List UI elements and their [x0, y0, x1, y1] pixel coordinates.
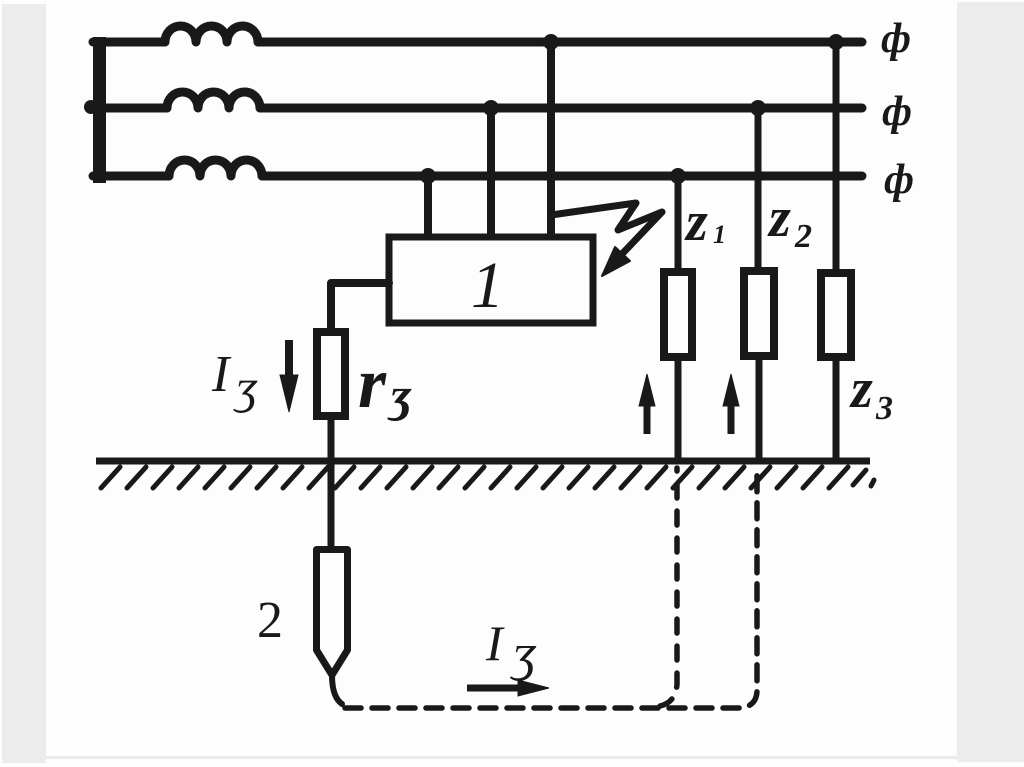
wire: from box 1 left side to r3	[331, 283, 389, 328]
earth electrode 2	[317, 550, 348, 676]
inductor: source winding phase A	[165, 26, 258, 42]
wire: electrode tip stub	[332, 675, 342, 704]
node: junction dot on phase C at x=428	[420, 168, 436, 184]
wire: phase A line right segment	[258, 38, 862, 47]
wire: phase B line right segment	[260, 104, 862, 113]
resistor r3	[317, 332, 345, 416]
faint slide bottom edge	[46, 756, 957, 759]
label: I3 current	[211, 346, 258, 414]
arrow: I3 downward arrow	[280, 340, 298, 412]
wire: phase C line left segment	[93, 172, 169, 181]
svg-text:ф: ф	[882, 89, 912, 135]
node: junction dot on phase B at x=491	[483, 100, 499, 116]
ground surface line	[96, 458, 870, 465]
resistor z2	[744, 271, 774, 356]
arrow: I3 rightward arrow	[467, 680, 549, 696]
node: junction dot on phase C for z1	[670, 168, 686, 184]
node: junction dot on phase A for z3	[828, 34, 844, 50]
wire: r3 to earth electrode	[328, 420, 335, 545]
svg-text:z: z	[849, 358, 873, 420]
label: r3	[358, 343, 413, 423]
label: z3	[849, 358, 893, 427]
resistor z1	[664, 272, 692, 357]
inductor: source winding phase C	[169, 160, 262, 176]
inductor: source winding phase B	[167, 92, 260, 108]
wire: phase C line right segment	[262, 172, 862, 181]
svg-text:z: z	[767, 187, 791, 249]
svg-text:r: r	[358, 343, 387, 423]
node: junction dot on phase B for z2	[750, 100, 766, 116]
arrow: up arrow left of z1	[639, 374, 655, 434]
label: z2	[767, 187, 812, 255]
wire: phase B line left segment	[91, 104, 167, 113]
wire: tap from phase A down to box 1	[547, 42, 555, 236]
svg-text:ф: ф	[881, 16, 911, 62]
svg-text:2: 2	[257, 592, 283, 649]
svg-text:I: I	[485, 615, 505, 671]
impedance z3 branch wire lower	[833, 361, 840, 461]
wire: dashed ground-return loop horizontal and right riser	[345, 468, 757, 708]
svg-text:ф: ф	[884, 157, 914, 203]
arrow: up arrow left of z2	[723, 374, 739, 434]
impedance z1 branch wire upper	[675, 176, 682, 268]
svg-text:ʒ: ʒ	[509, 625, 537, 682]
svg-text:ʒ: ʒ	[233, 361, 258, 414]
ground hatching	[101, 467, 874, 488]
arrow: breakdown lightning symbol	[551, 203, 662, 276]
impedance z3 branch wire upper	[833, 42, 840, 269]
svg-text:2: 2	[794, 218, 812, 255]
wire: tap from phase B down to box 1	[487, 108, 495, 236]
svg-text:I: I	[211, 346, 232, 403]
svg-text:1: 1	[471, 249, 504, 322]
wire: left generator bus vertical	[93, 37, 106, 183]
wire: dashed ground-return left riser	[660, 468, 677, 706]
node: phase B left terminal dot	[84, 100, 98, 114]
box: consumer unit 1	[389, 237, 593, 323]
impedance z2 branch wire upper	[755, 108, 762, 267]
wire: tap from phase C down to box 1	[424, 176, 432, 236]
resistor z3	[821, 273, 851, 357]
svg-text:ʒ: ʒ	[387, 369, 413, 422]
node: junction dot on phase A at x=551	[543, 34, 559, 50]
impedance z2 branch wire lower	[756, 360, 763, 461]
label: I3 ground current	[485, 615, 537, 682]
svg-text:3: 3	[875, 390, 893, 427]
label: z1	[684, 191, 726, 253]
wire: phase A line left segment	[93, 38, 165, 47]
svg-text:z: z	[684, 191, 708, 253]
impedance z1 branch wire lower	[675, 360, 682, 461]
svg-text:1: 1	[713, 220, 726, 249]
